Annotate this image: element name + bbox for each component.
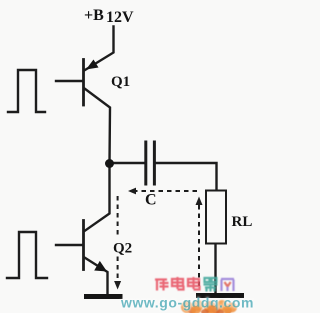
svg-text:Q2: Q2 [113, 241, 132, 257]
svg-text:C: C [145, 192, 157, 209]
svg-text:www.go-gddq.com: www.go-gddq.com [120, 295, 254, 311]
svg-text:12V: 12V [106, 9, 134, 26]
svg-text:Q1: Q1 [111, 74, 130, 90]
svg-text:+B: +B [84, 7, 104, 24]
svg-text:RL: RL [232, 214, 253, 230]
